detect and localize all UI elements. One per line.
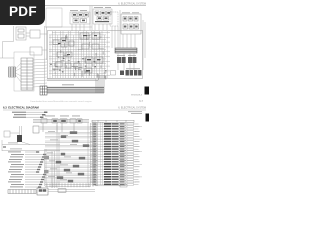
fuse panel outline: [46, 8, 62, 27]
switch SW3: [61, 153, 65, 155]
terminal board TB1: [21, 58, 33, 90]
connector table row 25: [90, 184, 139, 186]
page 2 header rule: [3, 109, 146, 111]
fuel pump M3: [68, 180, 73, 182]
gauge marks: [58, 35, 101, 71]
connector table row 21: [90, 173, 139, 175]
svg-text:6.3 ELECTRICAL DIAGRAM: 6.3 ELECTRICAL DIAGRAM: [3, 106, 40, 110]
relay K7: [72, 140, 78, 142]
svg-text:6. ELECTRICAL SYSTEM: 6. ELECTRICAL SYSTEM: [118, 2, 146, 5]
connector table row 5: [90, 133, 139, 135]
splice block X2: [44, 170, 49, 173]
solenoid Y1: [78, 173, 84, 175]
pin strip CN4: [45, 183, 90, 187]
leader wires lower-left: [25, 152, 43, 187]
connector table row 18: [90, 166, 140, 168]
lower harness bundle: [47, 75, 104, 93]
note text: [128, 111, 142, 114]
label text above SW1: [94, 6, 111, 9]
table end box: [120, 185, 127, 187]
horn H1: [64, 169, 70, 171]
connector table row 1: [90, 123, 139, 125]
label text above F1: [70, 9, 87, 12]
main harness trunk: [33, 120, 95, 133]
chapter tab page 1: [145, 87, 150, 95]
instrument cluster U2: [53, 33, 103, 73]
fuse labels F2: [126, 67, 140, 70]
labels above relays: [117, 54, 136, 57]
contact marks SW1: [95, 12, 110, 22]
connector table row 6: [90, 136, 140, 138]
svg-text:WSM349-3: WSM349-3: [131, 94, 143, 96]
left connector CN2: [9, 67, 16, 77]
connector table row 11: [90, 148, 139, 150]
sub panel outline: [14, 52, 34, 91]
wires at left: [0, 26, 47, 58]
connector table row 7: [90, 138, 142, 140]
wire code labels: [47, 131, 77, 180]
relay marks K1: [124, 18, 138, 28]
svg-text:6. ELECTRICAL SYSTEM: 6. ELECTRICAL SYSTEM: [118, 107, 146, 110]
regulator U3: [83, 145, 89, 147]
controller A2: [16, 27, 26, 40]
svg-text:6-7: 6-7: [139, 99, 143, 103]
trunk component T2: [52, 119, 58, 123]
connector table row 24: [90, 181, 140, 183]
ignition switch SW1: [93, 9, 112, 24]
vertical bus right: [88, 121, 95, 187]
fuse marks F1: [73, 14, 88, 21]
resistor block R1: [30, 47, 42, 55]
connector table row 19: [90, 168, 139, 170]
wire knots: [52, 34, 104, 80]
page 1 header rule: [3, 5, 146, 7]
glow plug controller U4: [56, 161, 61, 163]
sensor S1: [61, 136, 66, 138]
switch contacts SW1: [95, 11, 111, 20]
terminal lugs: [36, 151, 46, 187]
battery cables: [2, 126, 60, 151]
chapter tab page 2: [146, 114, 150, 122]
bottom wires: [48, 178, 95, 192]
middle harness rows: [45, 133, 95, 134]
wire knots lower: [54, 56, 106, 79]
cab harness enclosure: [48, 31, 143, 79]
PDF badge: [0, 0, 45, 25]
ground strip GND: [8, 190, 36, 194]
sensor S2: [79, 157, 85, 159]
fan-out wires: [16, 59, 48, 87]
connector table row 2: [90, 126, 142, 128]
trunk component T4: [70, 119, 76, 123]
table bottom line: [95, 185, 125, 187]
vertical bus left: [45, 125, 60, 188]
trunk labels: [45, 115, 80, 118]
fuse box F1: [70, 12, 90, 24]
connector table row 3: [90, 128, 139, 130]
connector CN1: [115, 48, 137, 53]
fuses in F1: [72, 13, 89, 23]
cable labels: [3, 143, 22, 150]
connector table row 4: [90, 131, 140, 133]
trunk component T1: [41, 119, 47, 123]
long wire under clusters: [45, 6, 92, 30]
junction box J1: [33, 126, 39, 133]
connector table row 17: [90, 163, 142, 165]
connector table row 23: [90, 178, 139, 180]
battery B1: [17, 135, 22, 142]
fusible link box: [4, 131, 10, 137]
solder points: [50, 58, 106, 73]
connector table row 13: [90, 153, 139, 155]
upper lugs: [40, 112, 47, 119]
connector table row 12: [90, 151, 142, 153]
connector table header: [92, 120, 134, 122]
harness label: [62, 84, 74, 85]
diode module D1: [110, 12, 118, 26]
labels above K1: [122, 11, 139, 14]
flasher U5: [73, 165, 79, 167]
connector table row 15: [90, 158, 139, 160]
leader wires upper: [26, 112, 44, 117]
relay K4: [128, 57, 132, 63]
splice block X1: [44, 156, 49, 159]
connector table row 22: [90, 176, 142, 178]
connector table row 8: [90, 141, 140, 143]
trunk component T5: [77, 119, 82, 123]
connector table row 20: [90, 171, 140, 173]
fuse block F2: [111, 70, 142, 76]
connector table row 9: [90, 143, 139, 145]
relay wires: [118, 53, 134, 70]
connector table row 10: [90, 146, 140, 148]
relay K5: [133, 57, 137, 63]
wire bus from top components: [45, 10, 146, 86]
controller A1: [30, 30, 40, 38]
connector CN3: [40, 86, 47, 95]
relay K3: [122, 57, 126, 63]
fuse box F4: [37, 188, 48, 195]
alternator G1: [70, 132, 77, 134]
trunk component T3: [60, 119, 67, 123]
svg-text:Downloaded from www.Manualslib: Downloaded from www.Manualslib.com manua…: [30, 100, 92, 103]
relay K2: [117, 57, 121, 63]
legend labels lower-left: [8, 152, 24, 188]
schematic wire grid: [49, 31, 110, 78]
table feeder wires: [101, 122, 103, 185]
relay box K1: [121, 14, 141, 34]
connector table row 16: [90, 161, 140, 163]
legend labels upper: [12, 112, 26, 118]
connector table row 14: [90, 156, 140, 158]
wiper motor M2: [57, 177, 63, 179]
